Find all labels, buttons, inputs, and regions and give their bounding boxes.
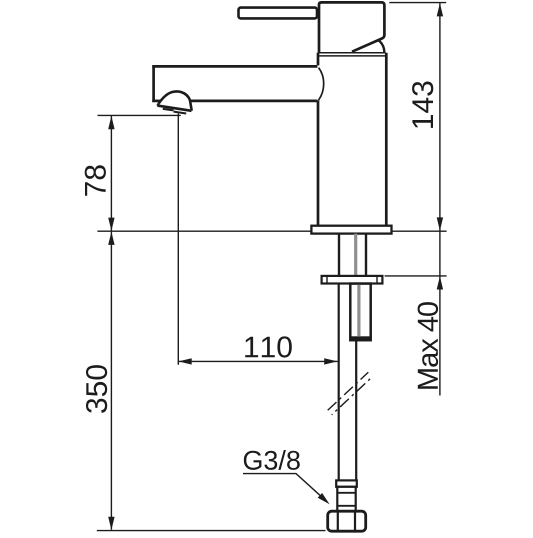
spout bottom-left stub — [152, 100, 160, 103]
dim line 110 — [178, 360, 337, 362]
nut hex flat right — [354, 512, 356, 530]
washer end tick right — [376, 276, 378, 283]
spout left edge — [152, 65, 155, 102]
label 78 — [85, 165, 106, 196]
hose right line — [355, 340, 357, 480]
body top seam lines — [318, 52, 386, 54]
faucet handle block — [319, 2, 384, 52]
body left edge lower — [317, 100, 320, 226]
label 350 — [86, 365, 107, 413]
label 143 — [412, 82, 433, 128]
arrow up @ washer (Max40) — [437, 276, 443, 289]
aerator dome — [159, 91, 192, 110]
aerator ring line 1 — [163, 109, 174, 111]
hose end collar — [336, 480, 357, 486]
G3/8 leader line — [243, 474, 321, 496]
base flange — [311, 226, 391, 234]
shank upper left line — [338, 234, 340, 276]
arrow up @ outlet (78 top) — [108, 116, 114, 129]
threaded shank below washer — [350, 284, 370, 341]
dim line 143 / Max40 vertical — [439, 3, 441, 395]
arrow right @ 110 right — [324, 358, 337, 364]
nut hex flat left — [337, 512, 339, 530]
aerator ring line 2 — [174, 112, 187, 114]
dim ext line washer level — [385, 275, 447, 277]
neck band line 1 — [337, 492, 355, 494]
arrow up @ counter (350 top) — [108, 232, 114, 245]
aerator bottom band — [157, 106, 191, 111]
neck band line 2 — [337, 505, 355, 507]
counter reference line — [97, 230, 446, 232]
body right edge — [385, 53, 388, 226]
body left edge upper — [317, 53, 320, 66]
pipe break dash line 1 — [328, 372, 369, 410]
spout bottom edge — [190, 100, 317, 103]
faucet lever bar — [239, 8, 318, 19]
shank upper right line — [365, 234, 367, 276]
body bulge curve at spout junction — [319, 68, 324, 100]
arrow down @ counter (78 bottom) — [108, 218, 114, 231]
hose gray (upper) — [354, 234, 357, 276]
label G3/8 — [244, 450, 300, 470]
aerator left edge — [157, 104, 158, 106]
arrow up @ top of 143 — [437, 3, 443, 16]
pipe break dash line 2 — [332, 377, 373, 415]
spout top edge — [152, 65, 317, 68]
arrow left @ 110 left — [178, 358, 191, 364]
label 110 — [245, 336, 292, 357]
shank bottom cap — [350, 336, 370, 340]
dim ext line top right — [389, 2, 446, 4]
mounting washer — [322, 276, 383, 284]
dim line 78/350 vertical — [110, 116, 112, 530]
label Max 40 — [418, 302, 439, 389]
washer end tick left — [326, 276, 328, 283]
hose left line — [338, 284, 340, 481]
dim ext line spout outlet — [98, 114, 181, 116]
dim ext line bottom — [97, 530, 326, 532]
arrow down @ bottom (350 bottom) — [108, 517, 114, 530]
G3/8 nut — [328, 511, 366, 531]
hose end neck — [337, 487, 355, 511]
projection line from outlet — [177, 114, 179, 365]
arrow down @ counter (143 bottom) — [437, 217, 443, 230]
arrowhead G3/8 leader — [318, 493, 330, 504]
hose gray (in shank) — [357, 285, 360, 336]
body shoulder arc — [378, 40, 384, 52]
